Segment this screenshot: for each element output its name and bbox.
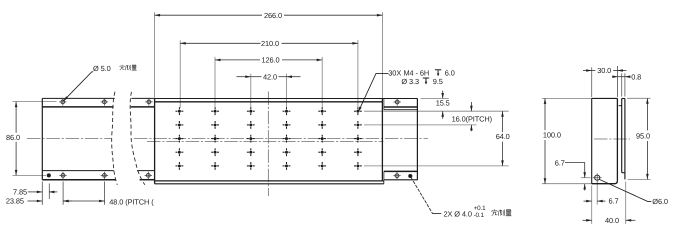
svg-text:Ø 3.3: Ø 3.3 (401, 77, 419, 86)
svg-text:30.0: 30.0 (597, 66, 611, 75)
svg-text:6.7: 6.7 (609, 197, 619, 206)
svg-text:40.0: 40.0 (605, 216, 619, 225)
svg-text:23.85: 23.85 (6, 197, 24, 206)
svg-text:6.7: 6.7 (555, 158, 565, 167)
svg-text:95.0: 95.0 (636, 132, 650, 141)
svg-text:2X Ø 4.0: 2X Ø 4.0 (444, 209, 472, 218)
svg-text:16.0(PITCH): 16.0(PITCH) (452, 114, 492, 123)
svg-text:15.5: 15.5 (436, 98, 450, 107)
svg-text:Ø 5.0: Ø 5.0 (93, 64, 111, 73)
svg-text:42.0: 42.0 (263, 72, 277, 81)
svg-text:+0.1: +0.1 (474, 205, 486, 212)
svg-text:-0.1: -0.1 (474, 212, 485, 219)
svg-text:126.0: 126.0 (262, 56, 280, 65)
svg-text:30X: 30X (388, 69, 401, 78)
svg-text:48.0 (PITCH (: 48.0 (PITCH ( (109, 197, 154, 206)
svg-text:6.0: 6.0 (445, 69, 455, 78)
svg-text:210.0: 210.0 (261, 39, 279, 48)
svg-text:9.5: 9.5 (433, 77, 443, 86)
svg-text:266.0: 266.0 (264, 11, 282, 20)
svg-text:86.0: 86.0 (6, 133, 20, 142)
svg-text:0.8: 0.8 (631, 72, 641, 81)
svg-text:7.85: 7.85 (13, 188, 27, 197)
svg-text:Ø6.0: Ø6.0 (652, 197, 668, 206)
svg-text:64.0: 64.0 (496, 132, 510, 141)
svg-text:100.0: 100.0 (543, 131, 561, 140)
